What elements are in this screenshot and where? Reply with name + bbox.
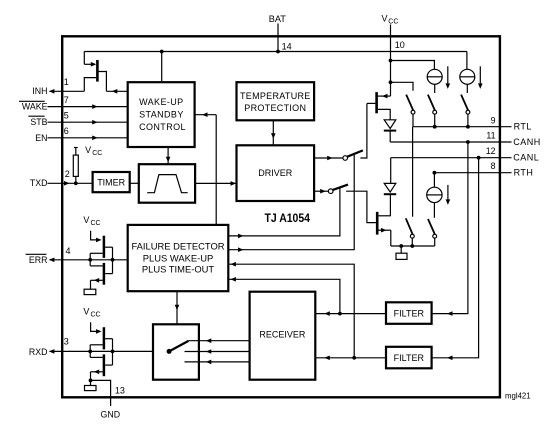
diode D1 (CANH) [384, 120, 396, 142]
wire RXD gate rail [89, 345, 91, 358]
wire filter F1 to receiver [315, 311, 386, 316]
svg-text:CANL: CANL [513, 153, 539, 163]
junction F2 output sense [352, 356, 356, 360]
block DRIVER [237, 145, 315, 201]
switch SB (driver low output) [315, 185, 377, 223]
svg-text:1: 1 [64, 77, 69, 87]
pin RXD (3) [29, 337, 153, 357]
arrow I1 current direction [446, 66, 451, 89]
arrow I2 current direction [478, 66, 483, 89]
wire filter F2 output to failure detector [228, 262, 354, 358]
svg-text:FAILURE DETECTOR: FAILURE DETECTOR [131, 241, 224, 252]
block WAKE-UP STANDBY CONTROL [128, 82, 195, 147]
wire VCC to switch S1 [391, 82, 414, 91]
junction ERR gate [88, 258, 92, 262]
wire wake-up right to failure detector [195, 112, 217, 224]
svg-text:V: V [83, 306, 89, 316]
wire wake-up to slope block [166, 147, 171, 164]
wire VCC to current source I1 [391, 61, 435, 70]
current source I3 (RTH) [427, 173, 442, 203]
switch SA (driver high output) [315, 103, 367, 160]
svg-text:BAT: BAT [269, 14, 287, 24]
ground tab CANL stage [396, 246, 407, 259]
svg-text:CC: CC [91, 312, 101, 319]
block FILTER F2 [386, 347, 432, 369]
pin STB (5) [28, 111, 127, 128]
svg-text:10: 10 [395, 40, 405, 50]
label VCC at RXD stage [83, 306, 100, 318]
junction RXD ground [89, 379, 93, 383]
junction RXD gate [88, 350, 92, 354]
pin CANL (12) [391, 146, 540, 162]
junction S3 on RTL [466, 125, 470, 129]
svg-text:5: 5 [64, 111, 69, 121]
pin EN (6) [35, 126, 127, 143]
wire TIMER to slope block [130, 182, 139, 184]
block FILTER F1 [386, 302, 432, 324]
svg-text:RTL: RTL [514, 122, 532, 132]
junction CANL to F2 [477, 156, 481, 160]
wire CANH to filter F1 [432, 142, 468, 316]
svg-text:8: 8 [491, 161, 496, 171]
chip boundary [62, 36, 500, 397]
wire failure detector to driver switch SB sense [228, 188, 340, 238]
wire ERR gate rail [89, 253, 91, 266]
switch S2 (I1 to RTL) [428, 84, 437, 126]
svg-text:DRIVER: DRIVER [258, 168, 293, 178]
svg-text:FILTER: FILTER [394, 309, 425, 319]
current source I1 (VCC) [427, 69, 442, 84]
svg-text:4: 4 [66, 246, 71, 256]
junction BAT pin [276, 50, 280, 54]
block RECEIVER [250, 292, 316, 380]
svg-text:WAKE: WAKE [22, 102, 48, 112]
svg-text:13: 13 [115, 386, 125, 396]
switch S3 (I2 to RTL) [461, 84, 470, 126]
svg-text:TJ A1054: TJ A1054 [265, 211, 311, 225]
switch S5 (I3 branch) [428, 203, 437, 246]
svg-text:CANH: CANH [513, 137, 541, 147]
svg-text:PLUS TIME-OUT: PLUS TIME-OUT [142, 264, 215, 275]
junction VCC upper [389, 59, 393, 63]
junction VCC lower [389, 80, 393, 84]
transistor Q1 (INH driver) [84, 60, 106, 91]
wire filter F2 to receiver [315, 356, 386, 361]
pin CANH (11) [390, 131, 541, 147]
svg-text:INH: INH [32, 86, 47, 96]
svg-text:2: 2 [65, 169, 70, 179]
svg-text:STANDBY: STANDBY [139, 110, 184, 120]
mux pivot junction [167, 349, 172, 354]
svg-text:7: 7 [64, 95, 69, 105]
wire receiver output bottom to mux [185, 360, 250, 365]
svg-text:mgl421: mgl421 [505, 391, 531, 400]
junction F1 output sense [338, 312, 342, 316]
svg-text:RECEIVER: RECEIVER [259, 330, 306, 340]
wire Q7 source rail [391, 245, 435, 247]
wire BAT rail [84, 52, 467, 65]
block slope control [139, 164, 195, 203]
pin ERR (4) [26, 246, 128, 265]
transistor Q2 (ERR high side) [90, 231, 112, 258]
transistor Q6 (CANH driver) [367, 92, 391, 120]
svg-text:TIMER: TIMER [97, 177, 125, 187]
pin GND (13) [91, 380, 125, 419]
svg-text:V: V [85, 145, 91, 155]
svg-text:STB: STB [30, 117, 47, 127]
svg-text:14: 14 [282, 41, 292, 51]
svg-text:TXD: TXD [30, 178, 48, 188]
junction substrate tab [399, 244, 403, 248]
junction TXD / pull-up [74, 181, 78, 185]
switch S4 (RTL branch) [406, 127, 414, 246]
svg-text:CC: CC [388, 18, 398, 25]
svg-text:RTH: RTH [514, 168, 534, 178]
wire failure detector to mux [175, 291, 180, 324]
svg-text:RXD: RXD [29, 347, 48, 357]
pin INH (1) [32, 77, 84, 96]
wire filter F1 output to failure detector [228, 277, 340, 314]
label VCC at R1 [85, 145, 102, 157]
mux lever [169, 341, 188, 352]
wire temperature protection to driver [271, 120, 276, 145]
transistor Q4 (RXD high side) [90, 322, 112, 349]
svg-text:6: 6 [64, 126, 69, 136]
pin WAKE (7) [19, 95, 128, 112]
arrow into DRIVER [231, 181, 237, 186]
pin RTL (9) [413, 115, 532, 131]
svg-text:9: 9 [491, 115, 496, 125]
ground tab RXD stage [85, 372, 97, 391]
wire slope to driver [195, 182, 236, 184]
wire receiver output middle to mux [185, 349, 250, 354]
resistor R1 (TXD pull-up) [73, 148, 78, 184]
svg-text:EN: EN [35, 133, 47, 143]
svg-text:V: V [83, 215, 89, 225]
wire failure detector to driver switch SA sense [228, 155, 354, 252]
svg-text:TEMPERATURE: TEMPERATURE [240, 91, 311, 101]
wire RXD drain rail [112, 339, 114, 365]
junction ERR drain [111, 258, 115, 262]
ground tab ERR stage [84, 280, 96, 294]
block FAILURE DETECTOR PLUS WAKE-UP PLUS TIME-OUT [128, 225, 229, 291]
svg-text:ERR: ERR [29, 255, 48, 265]
label VCC at ERR stage [83, 215, 100, 227]
transistor Q7 (CANL driver) [377, 212, 391, 246]
pin RTH (8) [434, 161, 533, 177]
svg-text:V: V [382, 14, 388, 24]
transistor Q5 (RXD low side) [90, 354, 112, 376]
svg-text:11: 11 [486, 131, 495, 141]
wire Q1 drain to wake-up box [106, 90, 127, 92]
svg-text:PROTECTION: PROTECTION [244, 103, 306, 113]
wire CANL to filter F2 [432, 158, 479, 360]
svg-text:CC: CC [91, 220, 101, 227]
pin BAT (14) [269, 14, 292, 52]
svg-text:12: 12 [486, 146, 496, 156]
svg-text:CONTROL: CONTROL [139, 122, 186, 132]
svg-text:3: 3 [64, 337, 69, 347]
wire ERR drain rail [112, 247, 114, 273]
junction RXD drain [111, 350, 115, 354]
junction CANH to F1 [466, 140, 470, 144]
svg-text:CC: CC [92, 150, 102, 157]
junction rail to wake-up [160, 50, 164, 54]
svg-text:GND: GND [101, 410, 121, 420]
pin TXD (2) [30, 169, 93, 188]
block TEMPERATURE PROTECTION [237, 82, 315, 120]
block multiplexer [153, 324, 199, 379]
block TIMER [93, 172, 130, 192]
arrow into Q1 drain wire [112, 89, 118, 94]
current source I2 (BAT) [460, 52, 475, 85]
wire receiver output top to mux [189, 338, 250, 343]
svg-text:PLUS WAKE-UP: PLUS WAKE-UP [143, 253, 214, 264]
svg-text:FILTER: FILTER [394, 353, 425, 363]
diode D2 (CANL) [384, 158, 396, 216]
junction S2 on RTL [433, 125, 437, 129]
transistor Q3 (ERR low side) [90, 263, 112, 285]
pin VCC (10) [382, 14, 405, 97]
junction switch S4 [410, 244, 414, 248]
svg-text:WAKE-UP: WAKE-UP [139, 97, 183, 107]
switch S1 (VCC to RTL) [406, 95, 415, 127]
wire rail to wake-up box top [161, 52, 163, 83]
junction RTH to I3 [433, 171, 437, 175]
arrow I3 current direction [446, 185, 451, 205]
